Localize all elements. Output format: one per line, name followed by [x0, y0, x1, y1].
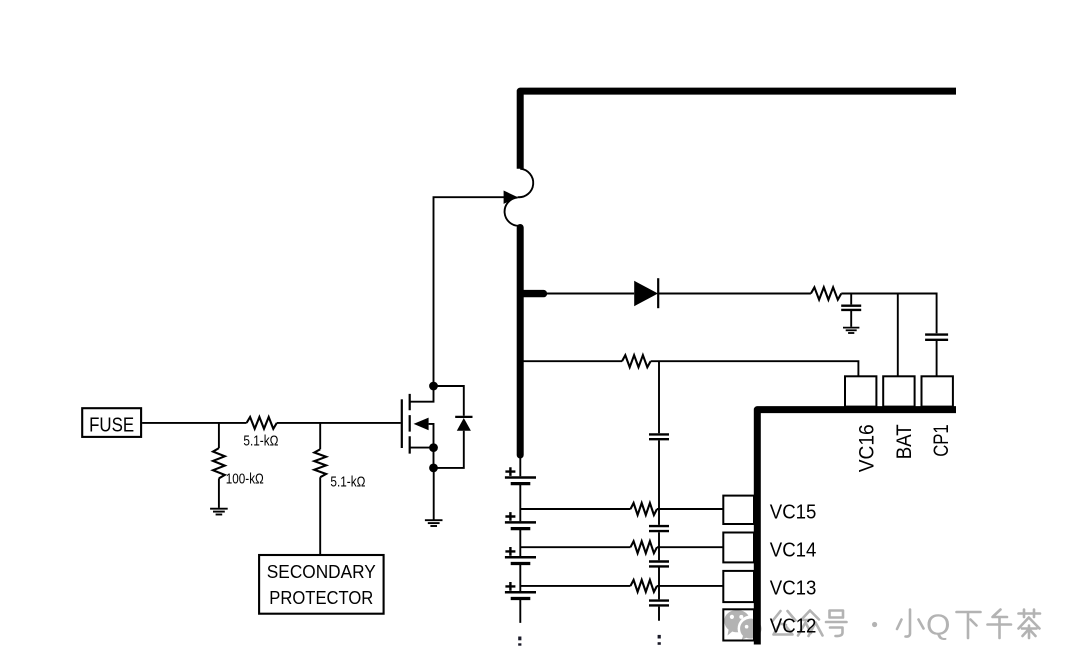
wire PACK+ top bus (thick)	[520, 91, 956, 169]
pin box VC12	[723, 609, 754, 640]
pin label VC15	[770, 501, 817, 523]
resistor R2 100-k vertical	[213, 448, 225, 478]
arrow into connector	[504, 191, 518, 204]
pin box BAT	[883, 376, 914, 406]
ellipsis dots under battery column	[518, 637, 521, 646]
transistor Q1 gate bar	[401, 399, 403, 448]
wire VC16 net	[524, 361, 859, 376]
FUSE box	[82, 408, 141, 437]
wire VC13 tap	[520, 585, 723, 587]
resistor R8 (VC13)	[631, 580, 658, 592]
ellipsis dots under capacitor column	[658, 635, 661, 645]
transistor Q1 body lead	[429, 424, 434, 448]
wire to ground G2	[433, 468, 435, 520]
svg-text:BAT: BAT	[892, 424, 916, 459]
pin box VC15	[723, 496, 754, 524]
wire C1 to ground	[850, 311, 852, 327]
pin label VC13	[770, 578, 817, 600]
capacitor C1 (BAT decoupling)	[841, 306, 861, 310]
pin label VC16	[855, 424, 879, 472]
svg-text:VC12: VC12	[770, 616, 817, 638]
wire BAT pin drop	[897, 294, 899, 377]
svg-text:PROTECTOR: PROTECTOR	[269, 587, 373, 608]
capacitor C6 (below VC13)	[649, 601, 669, 606]
wire VC15 tap	[520, 508, 723, 510]
capacitor C3 (VC16-VC15)	[649, 434, 669, 439]
resistor R5 (VC16)	[622, 355, 651, 367]
node drain dot	[429, 382, 438, 391]
pin label CP1	[929, 424, 953, 457]
battery cell B4 plus sign	[505, 582, 515, 591]
ground G1 under R2	[210, 509, 228, 515]
transistor Q1 source lead	[410, 447, 434, 449]
svg-text:5.1-kΩ: 5.1-kΩ	[243, 434, 278, 450]
pin box VC16	[845, 376, 876, 406]
battery cell B3 plates	[505, 557, 536, 563]
resistor R1 5.1-k horizontal	[247, 417, 277, 429]
wire C2 to CP1 pin	[936, 341, 938, 376]
pin label BAT	[892, 424, 916, 459]
resistor R4 (BAT filter)	[811, 287, 841, 299]
FUSE label	[89, 413, 134, 436]
resistor R6 (VC15)	[631, 503, 658, 515]
wire D1 to R4	[658, 293, 811, 295]
pin box VC14	[723, 533, 754, 563]
wire R4 to CP1 corner	[841, 294, 936, 334]
pin box CP1	[922, 376, 953, 406]
wire source to bottom node	[433, 448, 435, 468]
connector J1 upper arc	[518, 169, 534, 198]
ground G2 under Q1	[425, 520, 443, 526]
battery cell B2 plus sign	[505, 512, 515, 521]
diode D2 body diode triangle	[457, 418, 471, 431]
wire C1 junction lead	[850, 294, 852, 305]
svg-text:VC15: VC15	[770, 501, 817, 523]
svg-text:VC13: VC13	[770, 578, 817, 600]
svg-text:100-kΩ: 100-kΩ	[226, 471, 264, 487]
battery cell B2 plates	[505, 522, 536, 528]
wire bus end to cell1	[519, 456, 521, 476]
svg-text:VC14: VC14	[770, 540, 817, 562]
label SECONDARY	[267, 561, 376, 582]
capacitor C5 (VC14-VC13)	[649, 562, 669, 567]
wire thick stub to diode	[523, 290, 544, 297]
transistor Q1 body arrow	[414, 418, 429, 431]
node source dot	[429, 443, 438, 452]
label 100-kΩ (R2)	[226, 471, 264, 487]
resistor R7 (VC14)	[631, 541, 658, 553]
wire junction to R2	[218, 423, 220, 508]
transistor Q1 drain lead	[410, 386, 434, 402]
diode D2 body diode cathode bar	[455, 416, 472, 418]
pin box VC13	[723, 571, 754, 602]
wire VC14 tap	[520, 546, 723, 548]
IC outline (thick)	[757, 410, 956, 645]
svg-text:SECONDARY: SECONDARY	[267, 561, 376, 582]
watermark WeChat logo and text 公众号·小Q下午茶	[724, 610, 1040, 642]
battery cell B3 plus sign	[505, 547, 515, 556]
svg-text:5.1-kΩ: 5.1-kΩ	[330, 474, 365, 490]
label 5.1-kΩ (R3)	[330, 474, 365, 490]
wire drain to PACK+ connector	[434, 197, 505, 386]
wire PACK+ bus lower (thick)	[517, 228, 524, 456]
battery cell B4 plates	[505, 592, 536, 598]
capacitor C4 (VC15-VC14)	[649, 526, 669, 531]
wire capacitor-column vertical	[658, 361, 660, 621]
wire battery column	[519, 485, 521, 623]
pin label VC14	[770, 540, 817, 562]
pin label VC12	[770, 616, 817, 638]
battery cell B1 plates	[505, 478, 536, 484]
wire body-diode branch	[434, 386, 464, 468]
label 5.1-kΩ (R1)	[243, 434, 278, 450]
transistor Q1 channel segments	[409, 394, 411, 454]
resistor R3 5.1-k vertical	[314, 449, 326, 477]
wire stub to diode D1	[547, 293, 634, 295]
svg-text:CP1: CP1	[929, 424, 953, 457]
svg-text:Q: Q	[926, 610, 951, 642]
diode D1 triangle	[634, 281, 658, 306]
SECONDARY PROTECTOR box	[259, 555, 384, 614]
wire FUSE to gate	[142, 422, 401, 424]
ground G3 under C1	[843, 328, 859, 333]
diode D1 cathode bar	[657, 278, 659, 308]
capacitor C2 (CP1 series)	[925, 335, 948, 340]
label PROTECTOR	[269, 587, 373, 608]
svg-text:VC16: VC16	[855, 424, 879, 472]
battery cell B1 plus sign	[505, 467, 515, 476]
svg-text:FUSE: FUSE	[89, 413, 134, 436]
node bottom dot	[429, 464, 438, 473]
connector J1 lower arc	[505, 197, 520, 225]
wire junction to R3	[319, 423, 321, 555]
